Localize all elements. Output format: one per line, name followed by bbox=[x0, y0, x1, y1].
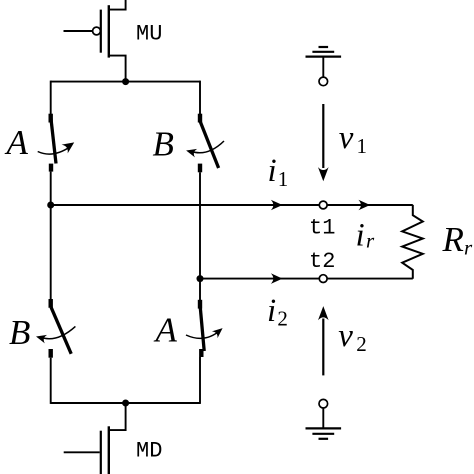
wire top rail bbox=[51, 81, 200, 83]
label R_r bbox=[442, 220, 474, 260]
wire: left branch lower bbox=[50, 358, 52, 404]
wire: middle branch upper bbox=[199, 81, 201, 114]
resistor Rr bbox=[402, 205, 423, 279]
label A (top) bbox=[5, 123, 29, 162]
label B (bottom) bbox=[9, 313, 30, 352]
svg-text:t1: t1 bbox=[309, 215, 335, 240]
wire: left branch upper bbox=[50, 81, 52, 114]
label v_2 bbox=[338, 318, 366, 356]
wire: i2 line from node to resistor bbox=[200, 278, 413, 280]
ground (bottom right) bbox=[306, 408, 342, 439]
svg-text:1: 1 bbox=[357, 134, 368, 158]
switch B bottom-left (open) bbox=[51, 299, 71, 358]
node: MD drain junction bbox=[122, 400, 129, 407]
label B (top) bbox=[153, 124, 174, 163]
arrow for switch B top bbox=[185, 141, 224, 157]
arrow for switch A bottom bbox=[186, 325, 225, 339]
arrow for switch B bottom bbox=[35, 326, 76, 343]
transistor MD (NMOS) bbox=[64, 403, 126, 474]
svg-text:v: v bbox=[338, 318, 353, 354]
wire: middle branch, i2 node down to switch A bbox=[199, 279, 201, 301]
svg-text:t2: t2 bbox=[309, 249, 335, 274]
label i_r bbox=[356, 217, 376, 253]
label A (bottom) bbox=[154, 311, 178, 350]
svg-text:r: r bbox=[464, 236, 473, 260]
label i_2 bbox=[267, 293, 288, 330]
switch B top (open) bbox=[200, 114, 219, 173]
switch A top-left (closed) bbox=[51, 114, 57, 172]
svg-text:i: i bbox=[356, 217, 365, 253]
svg-text:i: i bbox=[268, 153, 277, 189]
svg-text:R: R bbox=[442, 220, 464, 259]
svg-text:A: A bbox=[154, 311, 178, 350]
arrowhead i1 (left of t1) bbox=[271, 200, 283, 211]
wire: i1 line from node to resistor bbox=[51, 204, 413, 206]
label t2 bbox=[309, 249, 335, 274]
svg-text:MU: MU bbox=[136, 22, 162, 47]
label MD bbox=[136, 439, 162, 464]
label t1 bbox=[309, 215, 335, 240]
svg-text:A: A bbox=[5, 123, 29, 162]
node: i2 tap bbox=[197, 275, 204, 282]
wire: middle branch, switch B down to i2 node (crosses i1 wire) bbox=[199, 172, 201, 278]
wire: left branch, i1 node down to switch B bbox=[50, 205, 52, 299]
svg-text:i: i bbox=[267, 293, 276, 329]
svg-text:MD: MD bbox=[136, 439, 162, 464]
switch A bottom (closed) bbox=[200, 300, 205, 357]
svg-text:v: v bbox=[339, 120, 354, 156]
svg-text:r: r bbox=[366, 229, 375, 253]
terminal t1 bbox=[319, 201, 327, 209]
label i_1 bbox=[268, 153, 289, 191]
label v_1 bbox=[339, 120, 367, 158]
svg-text:B: B bbox=[9, 313, 30, 352]
wire: bottom rail bbox=[51, 402, 200, 404]
wire: left branch, switch A to i1 node bbox=[50, 172, 52, 205]
svg-text:2: 2 bbox=[277, 306, 288, 330]
label MU bbox=[136, 22, 162, 47]
ground (top right, inverted) bbox=[306, 47, 342, 77]
node: i1 tap bbox=[47, 202, 54, 209]
terminal circle at top ground bbox=[319, 77, 328, 86]
arrow for switch A top bbox=[38, 138, 78, 154]
transistor MU (PMOS) bbox=[64, 0, 126, 82]
svg-text:1: 1 bbox=[278, 167, 289, 191]
node: MU drain junction bbox=[122, 78, 129, 85]
terminal circle at bottom ground bbox=[319, 399, 328, 408]
arrowhead i2 bbox=[271, 273, 283, 284]
arrowhead i1 (right of t1) bbox=[358, 200, 370, 211]
terminal t2 bbox=[319, 275, 327, 283]
svg-text:2: 2 bbox=[356, 332, 367, 356]
svg-text:B: B bbox=[153, 124, 174, 163]
wire: middle branch lower bbox=[199, 357, 201, 404]
arrow v2 (upward) bbox=[318, 306, 329, 375]
arrow v1 (downward) bbox=[318, 104, 329, 181]
